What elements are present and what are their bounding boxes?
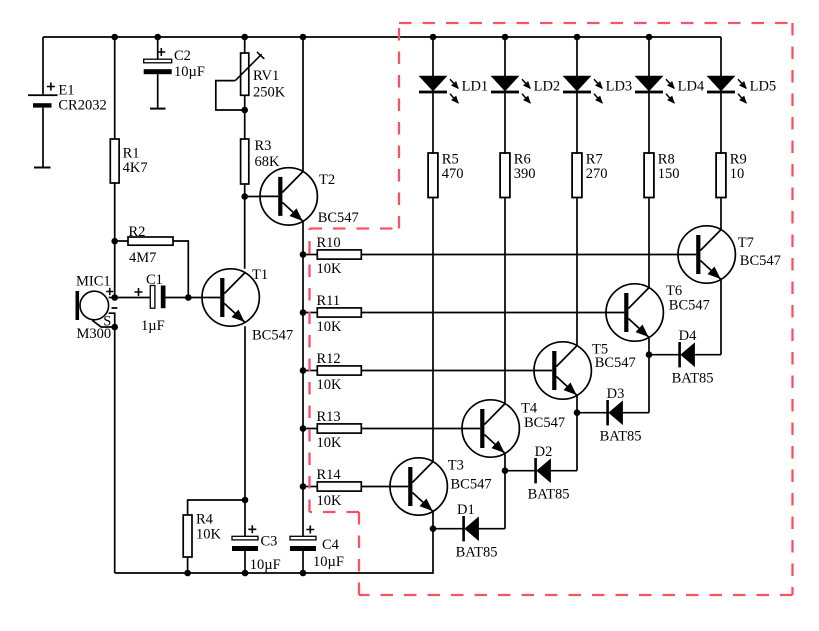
wire MIC minus lead (109, 313, 115, 327)
node ground rail junctions (184, 570, 191, 577)
svg-text:390: 390 (514, 166, 536, 182)
wire R1 to R2 node (114, 183, 116, 241)
wire RV1 wiper (216, 81, 245, 110)
svg-text:BC547: BC547 (524, 415, 565, 431)
wire R6 to transistor collector (504, 198, 506, 404)
svg-text:BAT85: BAT85 (672, 370, 714, 386)
LED LD5 (707, 76, 746, 103)
transistor T4 (462, 400, 565, 457)
wire R4 bottom lead (187, 557, 189, 573)
svg-text:LD2: LD2 (534, 79, 561, 95)
LED LD2 (491, 76, 530, 103)
node C1/T1 base junction (185, 294, 192, 301)
svg-text:BC547: BC547 (451, 477, 492, 493)
wire C3 to ground (244, 551, 246, 573)
wire T7 emitter drop (720, 279, 722, 354)
wire R14 base wire (361, 486, 390, 488)
wire R13 base wire (361, 428, 462, 430)
svg-text:RV1: RV1 (253, 68, 279, 84)
svg-text:C2: C2 (174, 48, 191, 64)
svg-text:T7: T7 (738, 235, 754, 251)
svg-text:LD5: LD5 (750, 79, 777, 95)
svg-text:BAT85: BAT85 (456, 544, 498, 560)
battery E1 (28, 94, 58, 96)
resistor R9 (716, 153, 726, 198)
svg-text:10K: 10K (317, 493, 343, 509)
svg-text:MIC1: MIC1 (76, 274, 111, 290)
wire T6 emitter drop (648, 337, 650, 354)
resistor R5 (428, 153, 438, 198)
wire R4 top lead (188, 500, 245, 515)
svg-text:BC547: BC547 (740, 253, 781, 269)
wire R1 column top (114, 37, 116, 139)
wire R10 left lead (303, 254, 317, 256)
LED LD3 (563, 76, 602, 103)
node MIC+ junction (111, 294, 118, 301)
svg-text:D2: D2 (535, 444, 553, 460)
transistor T5 (534, 341, 636, 399)
svg-text:R4: R4 (196, 512, 214, 528)
svg-text:10K: 10K (317, 377, 343, 393)
wire top supply rail (43, 36, 721, 38)
svg-text:R12: R12 (317, 351, 341, 367)
wire C4 to ground (302, 551, 304, 573)
wire R10 base wire (361, 254, 678, 256)
svg-text:D3: D3 (607, 386, 625, 402)
wire R9 to transistor collector (720, 198, 722, 230)
svg-text:C3: C3 (261, 534, 278, 550)
svg-text:LD4: LD4 (678, 79, 705, 95)
transistor T2 (260, 168, 359, 226)
wire LD4 cathode to R8 (648, 93, 650, 153)
diode D4 (649, 342, 721, 367)
svg-text:BC547: BC547 (595, 355, 636, 371)
capacitor C1 (150, 286, 155, 309)
capacitor C2 (144, 59, 172, 63)
svg-text:BC547: BC547 (669, 298, 710, 314)
svg-text:R3: R3 (255, 138, 272, 154)
node T2 base junction (241, 193, 248, 200)
wire R12 base wire (361, 370, 534, 372)
svg-text:4M7: 4M7 (129, 250, 156, 266)
capacitor C3 (232, 536, 258, 540)
wire LD1 anode column (432, 37, 434, 76)
svg-text:LD3: LD3 (606, 79, 633, 95)
capacitor C4 (290, 536, 316, 540)
wire T2 base lead (245, 196, 261, 198)
svg-text:470: 470 (442, 166, 464, 182)
wire MIC shield lead (92, 320, 115, 327)
svg-text:D4: D4 (679, 328, 697, 344)
svg-text:10µF: 10µF (313, 554, 344, 570)
svg-text:R2: R2 (129, 224, 146, 240)
svg-text:1µF: 1µF (141, 318, 165, 334)
resistor R1 (110, 139, 119, 183)
resistor R2 (128, 237, 173, 245)
wire R2 node to MIC+ node (114, 241, 116, 297)
wire C2 bottom stub (157, 74, 159, 108)
wire R5 to transistor collector (432, 198, 434, 462)
resistor R12 (317, 366, 361, 375)
svg-text:270: 270 (586, 166, 608, 182)
svg-text:10µF: 10µF (174, 64, 205, 80)
wire D1 to T4 emitter node (504, 471, 506, 529)
transistor T1 (202, 267, 293, 344)
svg-text:C4: C4 (322, 537, 340, 553)
svg-text:T3: T3 (448, 457, 464, 473)
svg-text:R13: R13 (317, 409, 341, 425)
node emitter/diode junctions (430, 525, 437, 532)
wire LD3 anode column (576, 37, 578, 76)
svg-text:CR2032: CR2032 (58, 97, 106, 113)
svg-text:D1: D1 (457, 502, 475, 518)
svg-text:BC547: BC547 (252, 328, 293, 344)
svg-text:T6: T6 (666, 283, 682, 299)
wire MIC column to ground rail (114, 327, 116, 573)
wire RV1 bottom to R3 (244, 95, 246, 139)
diode D3 (577, 400, 649, 425)
svg-text:10K: 10K (196, 527, 222, 543)
wire bottom ground rail (115, 529, 433, 573)
wire D2 to T5 emitter node (576, 413, 578, 471)
svg-text:10: 10 (730, 166, 745, 182)
wire R7 to transistor collector (576, 198, 578, 346)
transistor T3 (390, 457, 492, 515)
svg-text:10K: 10K (317, 435, 343, 451)
wire C2 top (157, 37, 159, 59)
node top rail junctions (111, 34, 118, 41)
wire MIC+ to C1 (115, 297, 151, 299)
svg-text:10µF: 10µF (250, 557, 281, 573)
diode D2 (505, 458, 577, 483)
resistor R13 (317, 424, 361, 433)
wire C1 to T1 base (166, 297, 203, 299)
wire D3 to T6 emitter node (648, 355, 650, 413)
svg-text:R14: R14 (317, 467, 342, 483)
wire LD5 cathode to R9 (720, 93, 722, 153)
resistor R14 (317, 482, 361, 491)
wire RV1 top (244, 37, 246, 53)
wire left battery drop (42, 37, 44, 94)
node R10-R14 junctions (300, 251, 307, 258)
transistor T6 (606, 283, 710, 341)
svg-text:R1: R1 (123, 146, 140, 162)
wire R11 left lead (303, 312, 317, 314)
wire LD2 anode column (504, 37, 506, 76)
svg-text:T1: T1 (252, 267, 268, 283)
svg-text:R10: R10 (317, 235, 341, 251)
resistor R8 (644, 153, 654, 198)
svg-text:10K: 10K (317, 319, 343, 335)
svg-text:T4: T4 (521, 400, 538, 416)
resistor R7 (572, 153, 582, 198)
LED LD4 (635, 76, 674, 103)
wire R3 to T2 base node (244, 184, 246, 197)
LED LD1 (419, 76, 458, 103)
wire R13 left lead (303, 428, 317, 430)
node R2 junction (111, 238, 118, 245)
wire LD5 anode column (720, 37, 722, 76)
svg-text:150: 150 (658, 166, 680, 182)
diode D1 (433, 516, 505, 541)
svg-text:T2: T2 (319, 172, 335, 188)
wire T2 emitter column (302, 221, 304, 536)
potentiometer RV1 (241, 53, 249, 95)
wire LD3 cathode to R7 (576, 93, 578, 153)
wire R12 left lead (303, 370, 317, 372)
microphone MIC1 (76, 291, 80, 320)
wire T4 emitter drop (504, 453, 506, 470)
resistor R3 (241, 139, 249, 184)
wire LD1 cathode to R5 (432, 93, 434, 153)
svg-text:BAT85: BAT85 (528, 486, 570, 502)
svg-text:LD1: LD1 (462, 79, 489, 95)
wire R14 left lead (303, 486, 317, 488)
svg-text:68K: 68K (255, 154, 281, 170)
wire R2 left lead (115, 240, 128, 242)
svg-text:10K: 10K (317, 261, 343, 277)
node MIC shield junction (111, 324, 118, 331)
resistor R10 (317, 250, 361, 259)
svg-text:R11: R11 (317, 293, 341, 309)
resistor R11 (317, 308, 361, 317)
wire R2 right lead (173, 241, 188, 298)
wire T1 collector (244, 197, 246, 269)
wire T1 emitter column (244, 326, 246, 536)
svg-text:M300: M300 (77, 326, 112, 342)
wire T2 collector column (302, 37, 304, 172)
svg-text:E1: E1 (58, 83, 74, 99)
svg-text:BC547: BC547 (318, 210, 359, 226)
svg-text:250K: 250K (253, 85, 286, 101)
wire LD4 anode column (648, 37, 650, 76)
svg-text:BAT85: BAT85 (600, 428, 642, 444)
svg-text:4K7: 4K7 (123, 160, 148, 176)
wire R11 base wire (361, 312, 606, 314)
resistor R6 (500, 153, 510, 198)
transistor T7 (678, 226, 781, 283)
wire T3 emitter drop (432, 511, 434, 528)
svg-text:C1: C1 (146, 272, 163, 288)
resistor R4 (183, 515, 192, 557)
wire LD2 cathode to R6 (504, 93, 506, 153)
wire T5 emitter drop (576, 395, 578, 412)
dashed LED-driver boundary box (399, 22, 793, 24)
wire R8 to transistor collector (648, 198, 650, 288)
